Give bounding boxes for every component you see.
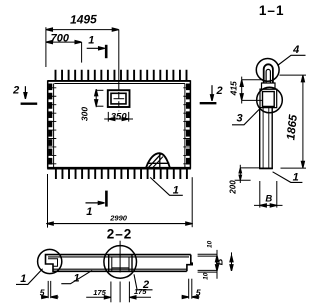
section marker 2 left	[21, 86, 38, 104]
leader label 4	[278, 55, 306, 65]
leader label 1 (section 1-1)	[273, 172, 303, 183]
keyed right edge dashes	[183, 84, 190, 167]
svg-text:175: 175	[134, 287, 147, 296]
detail circle middle	[104, 246, 137, 279]
section 1-1: lifting loop	[264, 64, 273, 83]
axis line through middle detail	[119, 241, 121, 273]
opening vertical axis	[114, 30, 125, 112]
section marker 1 bottom	[86, 191, 107, 207]
svg-text:200: 200	[228, 180, 237, 195]
dimension 5 left	[41, 281, 59, 299]
svg-text:В: В	[214, 258, 224, 265]
svg-text:2: 2	[12, 85, 19, 97]
dimension 1865	[280, 75, 307, 168]
svg-text:4: 4	[292, 44, 299, 56]
svg-text:1495: 1495	[70, 12, 97, 26]
section 2-2: slab outline	[46, 255, 193, 272]
section marker 2 right	[200, 85, 217, 103]
panel outline plan view	[47, 80, 191, 168]
detail circle 3	[257, 87, 283, 113]
svg-text:1: 1	[88, 35, 94, 47]
svg-text:2990: 2990	[109, 214, 128, 223]
dimensions 175 175	[86, 282, 151, 303]
svg-text:1: 1	[74, 273, 80, 285]
dimension 5 right	[182, 279, 200, 299]
svg-text:5: 5	[40, 287, 45, 297]
dimension 300 of opening	[95, 89, 104, 107]
svg-text:10: 10	[203, 272, 210, 280]
detail circle 4	[256, 59, 279, 82]
svg-text:1865: 1865	[285, 114, 300, 141]
dimension 350 of opening	[104, 112, 133, 122]
keyed left edge dashes	[48, 84, 57, 167]
dimension 415	[240, 77, 263, 104]
dimension 1495	[46, 27, 119, 67]
dimension 700	[46, 41, 82, 63]
opening frame in section 2-2	[109, 255, 132, 272]
leader label 3	[232, 109, 260, 125]
section 1-1: panel body	[259, 108, 273, 169]
svg-text:10: 10	[206, 240, 213, 248]
svg-text:2: 2	[216, 85, 223, 97]
svg-text:415: 415	[228, 81, 238, 96]
svg-text:700: 700	[51, 32, 70, 44]
svg-text:В: В	[265, 194, 272, 205]
svg-text:1: 1	[293, 172, 299, 184]
svg-text:3: 3	[237, 113, 243, 125]
svg-text:175: 175	[93, 288, 106, 297]
svg-text:2–2: 2–2	[107, 226, 133, 241]
svg-text:350: 350	[111, 111, 128, 122]
svg-text:1: 1	[20, 273, 26, 285]
slab end key detail	[48, 259, 58, 267]
leader label 1 (left end)	[16, 269, 43, 285]
svg-text:300: 300	[80, 107, 90, 121]
opening in panel	[108, 90, 130, 107]
lifting loop hump in plan	[146, 153, 170, 167]
leader label 1 (lifting loop)	[150, 177, 183, 195]
dimension 2990	[46, 174, 193, 228]
svg-text:5: 5	[196, 288, 201, 298]
rebar ticks bottom edge	[56, 168, 187, 179]
leader label 2	[134, 274, 153, 290]
svg-text:1: 1	[173, 185, 179, 197]
svg-text:1–1: 1–1	[259, 3, 285, 18]
section 1-1: panel head key	[260, 83, 277, 108]
detail circle left end	[38, 249, 62, 273]
dimension B section 1-1	[254, 181, 283, 208]
svg-text:1: 1	[86, 206, 92, 218]
dimension 10 B 10 right of section 2-2	[198, 250, 233, 279]
dimension 200	[235, 165, 260, 183]
section marker 1 top	[87, 45, 107, 58]
leader label 1 (slab mid)	[61, 270, 92, 283]
rebar ticks top edge	[56, 70, 187, 82]
